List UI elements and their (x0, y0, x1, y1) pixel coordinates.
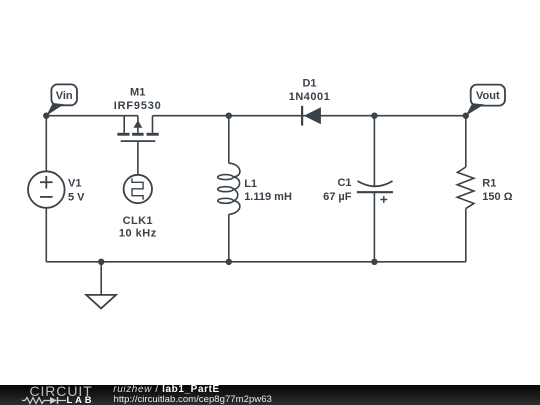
label CLK1 value (119, 215, 157, 240)
logo LAB text (67, 396, 95, 405)
wire R1 bottom (465, 209, 467, 262)
wire top rail right segment (153, 115, 466, 117)
footer credit line (113, 385, 220, 395)
wire L1 top (228, 116, 230, 164)
wire top rail left segment (46, 115, 138, 117)
label V1 value (68, 177, 85, 203)
label D1 (289, 77, 331, 102)
wire L1 bottom (228, 214, 230, 261)
transistor M1 (PMOS) (117, 116, 158, 141)
svg-text:1N4001: 1N4001 (289, 91, 331, 103)
svg-text:D1: D1 (302, 77, 316, 89)
svg-text:67 µF: 67 µF (323, 191, 352, 203)
wire M1 gate to CLK1 (137, 141, 139, 175)
label M1 (114, 87, 162, 112)
wire C1 top (373, 116, 375, 187)
label R1 value (482, 178, 512, 204)
logo resistor-diode glyph (21, 396, 71, 405)
ground (86, 295, 116, 309)
svg-text:1.119 mH: 1.119 mH (244, 191, 292, 203)
node ground junction dot (98, 259, 104, 265)
voltage source V1 (28, 171, 65, 208)
wire R1 top (465, 116, 467, 167)
svg-text:L1: L1 (244, 178, 257, 190)
clock source CLK1 (124, 175, 152, 203)
svg-text:R1: R1 (482, 178, 496, 190)
svg-text:IRF9530: IRF9530 (114, 100, 162, 112)
label L1 value (244, 178, 292, 203)
node Vout junction dot (463, 113, 469, 119)
node C1 top junction dot (371, 113, 377, 119)
svg-text:5 V: 5 V (68, 191, 85, 203)
svg-text:V1: V1 (68, 177, 81, 189)
diode D1 (302, 106, 321, 126)
wire V1 bottom (45, 208, 47, 262)
footer url line (114, 395, 272, 405)
svg-text:Vout: Vout (476, 90, 500, 102)
logo CIRCUIT text (30, 383, 93, 399)
svg-text:150 Ω: 150 Ω (482, 191, 512, 203)
wire C1 bottom (373, 192, 375, 262)
svg-text:C1: C1 (337, 177, 351, 189)
footer bar (0, 385, 540, 405)
resistor R1 (457, 167, 474, 209)
svg-text:Vin: Vin (56, 90, 73, 102)
wire ground stem (100, 262, 102, 295)
flag Vin (46, 84, 77, 115)
wire bottom rail (46, 261, 466, 263)
capacitor C1 (polarized) (357, 181, 393, 203)
node C1 bottom junction dot (371, 259, 377, 265)
node L1 bottom junction dot (226, 259, 232, 265)
flag Vout (466, 85, 505, 116)
node L1 top junction dot (226, 113, 232, 119)
svg-text:10 kHz: 10 kHz (119, 228, 157, 240)
node Vin junction dot (43, 113, 49, 119)
label C1 value (323, 177, 352, 203)
svg-text:CLK1: CLK1 (123, 215, 153, 227)
wire V1 top (45, 116, 47, 172)
inductor L1 (218, 163, 240, 214)
svg-text:M1: M1 (130, 87, 145, 99)
